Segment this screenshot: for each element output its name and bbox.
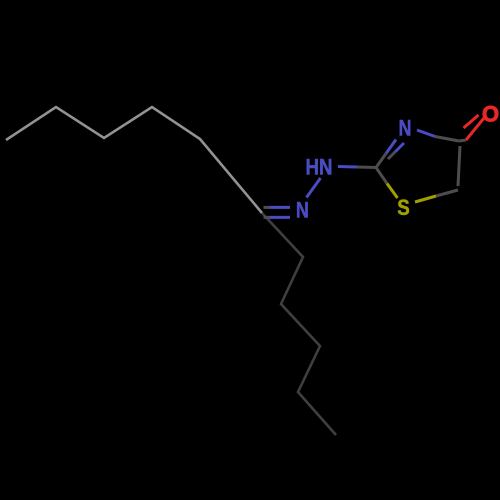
svg-text:O: O [482, 101, 499, 126]
C2=N3 main line: C2 gray half [376, 154, 386, 168]
C2-S yellow half [387, 184, 398, 199]
C4=O gray stub [459, 140, 466, 141]
C2=N3 main line: N3 blue half [386, 140, 396, 154]
svg-text:N: N [399, 115, 412, 140]
svg-text:N: N [296, 198, 309, 223]
N3-C4 bond gray half [435, 137, 459, 142]
svg-text:S: S [397, 195, 410, 220]
N3-C4 bond blue half [417, 130, 435, 137]
svg-text:HN: HN [306, 154, 333, 179]
C4=O main red [466, 118, 484, 140]
C4=O inner red [464, 115, 479, 128]
C2-S gray half [376, 168, 387, 184]
N1h-NH bond [307, 178, 321, 198]
NH-C2 bond gray half [357, 166, 376, 170]
C5-S gray half [436, 190, 458, 196]
C0=N double bond blue [270, 207, 291, 217]
C0=N double bond gray stubs [264, 207, 271, 217]
upper chain [6, 107, 262, 213]
NH-C2 bond blue half [338, 165, 357, 169]
C4-C5 bond [458, 146, 460, 186]
C2=N3 inner line gray half [388, 152, 395, 159]
lower chain [262, 213, 336, 435]
C2=N3 inner line blue half [395, 143, 404, 152]
C5-S yellow half [415, 196, 436, 202]
